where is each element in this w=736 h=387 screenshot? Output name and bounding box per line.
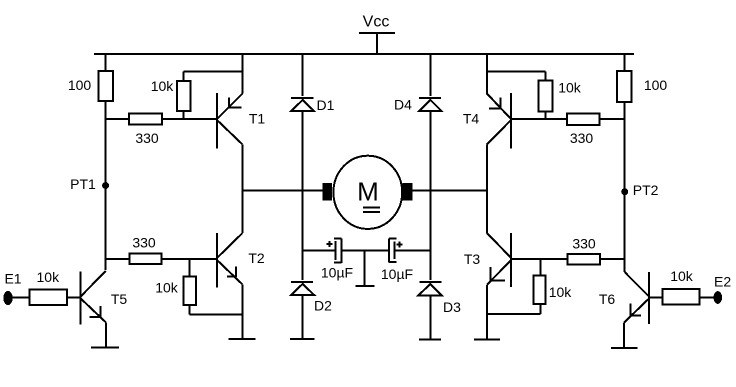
- transistor T2 (NPN): [217, 191, 265, 340]
- T3 base bar: [510, 233, 512, 287]
- wire cap row left: [303, 250, 336, 252]
- resistor 330 (upper right, T4 base): [567, 114, 600, 126]
- svg-text:T1: T1: [249, 111, 266, 127]
- ground T6: [611, 347, 638, 349]
- T3 collector diagonal: [487, 233, 511, 258]
- wire D4 to D3 (through motor node and cap node): [429, 111, 431, 280]
- terminal E2 dot: [714, 291, 723, 304]
- svg-text:330: 330: [132, 235, 156, 251]
- T5 emitter wire down: [105, 322, 107, 347]
- resistor 330 (upper left, T1 base): [129, 114, 162, 125]
- T4 collector diagonal: [487, 120, 511, 145]
- ground center: [356, 285, 375, 287]
- svg-text:T5: T5: [111, 291, 128, 307]
- diode D4: [419, 98, 442, 111]
- svg-text:100: 100: [644, 77, 668, 93]
- wire 10k bottom stub (T4): [544, 112, 546, 119]
- resistor 330 (lower right, T3 base): [567, 254, 599, 264]
- wire 10k bottom stub: [183, 111, 185, 119]
- resistor 100 (left): [98, 71, 113, 101]
- T6 emitter arrow: [629, 303, 631, 315]
- T4 emitter arrow: [499, 98, 501, 109]
- T6 base bar: [648, 272, 650, 324]
- wire 10k top stub (T4): [544, 72, 546, 81]
- wire T6 base to 10k: [649, 296, 662, 298]
- wire R100 down through PT2 to T6 collector: [624, 102, 626, 272]
- T3 emitter wire down: [486, 285, 488, 340]
- svg-text:330: 330: [570, 130, 594, 146]
- wire D2 down: [302, 295, 304, 339]
- top supply rail wire: [94, 53, 634, 55]
- wire 330 to T1 base: [162, 118, 217, 120]
- wire E1 to 10k: [13, 297, 30, 299]
- transistor T6 (NPN): [599, 272, 649, 348]
- svg-text:10k: 10k: [151, 78, 175, 94]
- wire rail to R 100 right: [624, 54, 626, 71]
- T3 collector wire up to motor node: [486, 191, 488, 234]
- svg-text:10k: 10k: [155, 280, 179, 296]
- T5 emitter diagonal: [81, 299, 106, 323]
- T2 emitter wire down: [242, 285, 244, 340]
- C2 plus sign: [397, 244, 403, 246]
- svg-text:100: 100: [68, 77, 92, 93]
- T2 base bar: [216, 233, 218, 288]
- wire D3 down: [429, 295, 431, 339]
- T4 base bar: [510, 93, 512, 149]
- wire 10k top to emitter line: [184, 71, 243, 73]
- transistor T3 (NPN): [464, 191, 568, 340]
- wire rail to T4 emitter: [486, 54, 488, 94]
- T6 emitter diagonal: [624, 299, 649, 323]
- T1 base bar: [216, 93, 218, 149]
- Vcc terminal bar: [359, 32, 395, 34]
- T2 emitter diagonal: [217, 260, 243, 285]
- motor DC mark: [363, 206, 380, 208]
- ground D2: [290, 338, 315, 340]
- wire motor left lead: [243, 190, 323, 192]
- wire PT1 line to resistor 330 upper-left: [106, 118, 129, 120]
- svg-text:M: M: [357, 177, 379, 207]
- wire rail to R 100 left: [105, 54, 107, 71]
- motor M body: [333, 156, 402, 229]
- T1 collector wire down to motor node: [242, 145, 244, 191]
- svg-text:10k: 10k: [37, 269, 61, 285]
- capacitor C1 10uF: [327, 238, 342, 262]
- svg-text:E1: E1: [4, 271, 21, 287]
- svg-text:10k: 10k: [558, 80, 582, 96]
- transistor T1 (PNP): [217, 54, 265, 191]
- T1 emitter wire to rail: [242, 54, 244, 94]
- svg-text:10µF: 10µF: [321, 265, 353, 281]
- node PT2 dot: [621, 188, 628, 195]
- svg-text:Vcc: Vcc: [363, 14, 390, 31]
- T2 collector diagonal: [217, 233, 243, 258]
- T4 collector wire down to motor node: [486, 145, 488, 191]
- wire rail down through D4 D3 column: [429, 54, 431, 96]
- resistor 10k (T2 base-emitter): [184, 277, 196, 305]
- T1 emitter diagonal: [217, 94, 243, 120]
- resistor 10k (T1 base-emitter): [177, 81, 191, 111]
- svg-text:330: 330: [135, 130, 159, 146]
- T6 collector diagonal: [625, 272, 649, 296]
- resistor 10k (E2 input): [662, 289, 699, 304]
- wire cap row middle: [341, 250, 389, 252]
- T1 collector diagonal: [217, 120, 243, 145]
- motor left brush: [323, 183, 333, 201]
- diode D3: [418, 282, 441, 296]
- capacitor C2 10uF: [389, 238, 403, 262]
- ground T5: [91, 347, 119, 349]
- svg-text:10k: 10k: [549, 284, 573, 300]
- T5 collector diagonal: [81, 271, 106, 297]
- wire 10k bottom to T3 emitter: [487, 313, 541, 315]
- svg-text:10k: 10k: [670, 268, 694, 284]
- wire rail down through D1 D2 column: [302, 54, 304, 96]
- svg-text:D2: D2: [314, 298, 332, 314]
- transistor T4 (PNP): [463, 93, 567, 191]
- T5 emitter arrow: [100, 306, 102, 317]
- wire 10k top stub: [183, 72, 185, 82]
- wire D1 to D2 (through motor node and cap node): [302, 111, 304, 280]
- wire 10k to T5 base: [67, 297, 81, 299]
- wire R100 down through PT1 to T5 collector: [105, 101, 107, 270]
- svg-text:T6: T6: [599, 291, 616, 307]
- svg-text:D1: D1: [317, 97, 335, 113]
- Vcc stem wire: [376, 33, 378, 54]
- C1 plus sign: [327, 243, 333, 245]
- ground D3: [419, 339, 441, 341]
- ground T2: [229, 338, 256, 340]
- resistor 10k (T4 base-emitter): [539, 81, 553, 112]
- svg-text:T3: T3: [464, 251, 481, 267]
- T4 base wire: [511, 118, 567, 120]
- resistor 10k (T3 base-emitter): [533, 275, 545, 304]
- wire 10k bottom stub (T3): [539, 304, 541, 314]
- svg-text:D4: D4: [394, 97, 412, 113]
- wire 10k top stub (T3): [539, 259, 541, 275]
- T4 emitter diagonal: [487, 94, 511, 120]
- svg-text:T4: T4: [463, 111, 480, 127]
- resistor 330 (lower left, T2 base): [130, 254, 162, 265]
- T3 emitter diagonal: [487, 260, 511, 285]
- ground T3: [474, 339, 500, 341]
- wire 330 to T2 base: [162, 258, 217, 260]
- T2 emitter arrow: [235, 267, 237, 278]
- svg-text:D3: D3: [443, 299, 461, 315]
- motor right brush: [403, 183, 413, 201]
- diode D1: [291, 98, 314, 111]
- T2 collector wire up to motor node: [242, 191, 244, 234]
- T1 emitter arrow: [228, 98, 230, 108]
- node PT1 dot: [102, 182, 109, 189]
- diode D2: [291, 282, 314, 295]
- wire 10k to E2: [699, 296, 713, 298]
- svg-text:PT2: PT2: [633, 182, 659, 198]
- wire center ground stem: [363, 251, 365, 286]
- wire 330 to PT2 line: [600, 258, 625, 260]
- wire emitter line to 10k top (right): [487, 71, 546, 73]
- svg-text:E2: E2: [714, 274, 731, 290]
- wire PT1 line to resistor 330 lower-left: [106, 258, 130, 260]
- svg-text:330: 330: [572, 236, 596, 252]
- resistor 10k (E1 input): [29, 289, 67, 305]
- wire 330 to PT2 line: [600, 118, 625, 120]
- transistor T5 (NPN): [81, 271, 128, 348]
- terminal E1 dot: [3, 291, 12, 305]
- T3 base wire: [511, 258, 567, 260]
- T5 base bar: [80, 272, 82, 325]
- wire motor right lead: [412, 190, 487, 192]
- wire 10k top stub: [188, 259, 190, 277]
- svg-text:T2: T2: [248, 250, 265, 266]
- T3 emitter arrow: [489, 267, 491, 280]
- svg-text:10µF: 10µF: [381, 266, 413, 282]
- T6 emitter wire down: [623, 322, 625, 348]
- resistor 100 (right): [617, 71, 632, 102]
- wire 10k bottom stub: [188, 305, 190, 315]
- wire cap row right: [394, 250, 430, 252]
- svg-text:PT1: PT1: [70, 176, 96, 192]
- wire 10k bottom to T2 emitter: [189, 313, 242, 315]
